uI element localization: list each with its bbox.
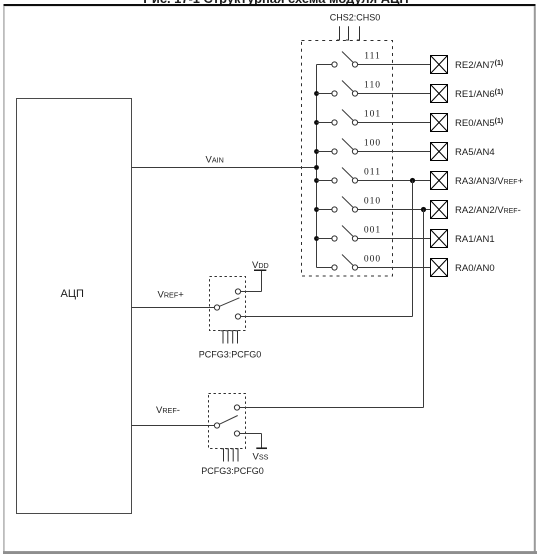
label 010 xyxy=(364,197,381,207)
wire AN3 to VREF+ switch xyxy=(412,181,414,317)
svg-text:000: 000 xyxy=(364,255,381,265)
svg-text:110: 110 xyxy=(364,81,381,91)
svg-text:111: 111 xyxy=(364,52,381,62)
svg-text:PCFG3:PCFG0: PCFG3:PCFG0 xyxy=(199,350,262,360)
pin RE1/AN6 xyxy=(431,85,504,103)
svg-text:010: 010 xyxy=(364,197,381,207)
wire AN2 to VREF- switch xyxy=(423,210,425,408)
wire VREF+ xyxy=(132,290,215,308)
svg-text:VREF+: VREF+ xyxy=(158,290,185,301)
ADC block АЦП xyxy=(17,99,132,514)
svg-text:АЦП: АЦП xyxy=(61,288,84,300)
label CHS2:CHS0 xyxy=(330,12,381,22)
svg-text:VSS: VSS xyxy=(253,451,269,462)
svg-text:VDD: VDD xyxy=(252,260,269,271)
svg-text:VREF-: VREF- xyxy=(156,405,180,416)
VREF- switch xyxy=(214,405,423,436)
node VAIN junction xyxy=(314,165,319,170)
svg-text:VAIN: VAIN xyxy=(206,155,224,166)
switch channel 000 xyxy=(317,255,431,271)
svg-text:001: 001 xyxy=(364,226,381,236)
switch channel 100 xyxy=(317,139,431,155)
svg-text:101: 101 xyxy=(364,110,381,120)
pin RA3/AN3/VREF+ xyxy=(431,172,524,190)
VREF+ switch dashed box xyxy=(210,277,246,331)
switch channel 001 xyxy=(317,226,431,242)
ground VSS xyxy=(253,434,269,463)
svg-text:PCFG3:PCFG0: PCFG3:PCFG0 xyxy=(201,466,264,476)
pin RA0/AN0 xyxy=(431,259,495,277)
input bus wire xyxy=(316,65,318,268)
label 100 xyxy=(364,139,381,149)
VREF- switch dashed box xyxy=(209,394,246,449)
VREF+ switch xyxy=(214,289,412,319)
pin RA1/AN1 xyxy=(431,230,495,248)
svg-text:011: 011 xyxy=(364,168,381,178)
svg-text:RA0/AN0: RA0/AN0 xyxy=(455,263,495,274)
label 101 xyxy=(364,110,381,120)
label 011 xyxy=(364,168,381,178)
svg-text:RA1/AN1: RA1/AN1 xyxy=(455,234,495,245)
node bus junction row 101 xyxy=(314,120,319,125)
wire VREF- xyxy=(132,405,215,426)
svg-text:RA5/AN4: RA5/AN4 xyxy=(455,147,495,158)
node junction VREF- tap xyxy=(421,207,426,212)
label PCFG3:PCFG0 (VREF+) xyxy=(199,350,262,360)
switch channel 101 xyxy=(317,110,431,126)
wire VAIN xyxy=(132,155,317,168)
node bus junction row 010 xyxy=(314,207,319,212)
pin RA5/AN4 xyxy=(431,143,495,161)
pin RE2/AN7 xyxy=(431,56,504,74)
label 000 xyxy=(364,255,381,265)
svg-text:100: 100 xyxy=(364,139,381,149)
CHS control lines xyxy=(337,26,360,40)
switch channel 111 xyxy=(317,52,431,68)
node bus junction row 011 xyxy=(314,178,319,183)
label 001 xyxy=(364,226,381,236)
node bus junction row 100 xyxy=(314,149,319,154)
PCFG control lines VREF- xyxy=(221,449,238,462)
pin RA2/AN2/VREF- xyxy=(431,201,521,219)
label PCFG3:PCFG0 (VREF-) xyxy=(201,466,264,476)
analog mux dashed box xyxy=(302,41,393,277)
PCFG control lines VREF+ xyxy=(221,331,238,344)
switch channel 011 xyxy=(317,168,431,184)
switch channel 010 xyxy=(317,197,431,213)
title caption (clipped) Рис. 17-1 xyxy=(143,0,408,6)
node junction VREF+ tap xyxy=(410,178,415,183)
label 110 xyxy=(364,81,381,91)
power VDD xyxy=(252,260,269,292)
node bus junction row 001 xyxy=(314,236,319,241)
pin RE0/AN5 xyxy=(431,114,504,132)
svg-text:CHS2:CHS0: CHS2:CHS0 xyxy=(330,12,381,22)
node bus junction row 110 xyxy=(314,91,319,96)
label 111 xyxy=(364,52,381,62)
switch channel 110 xyxy=(317,81,431,97)
